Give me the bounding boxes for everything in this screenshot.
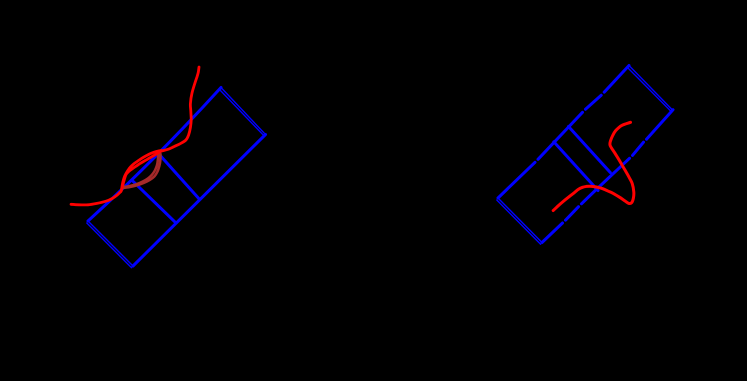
right rectangle short edge T2-R2 (doubled) [628,66,672,112]
right division line B [569,127,611,173]
left rectangle long edge B-R [133,135,266,267]
right rectangle long edge B2-R2 (with gaps) [542,110,673,243]
brown lens arc outer stroke [122,154,160,188]
left division line 1 [158,153,200,199]
right division line A [554,142,598,191]
brown lens arc inner stroke [122,153,158,188]
right rectangle long edge L2-T2 (with gaps) [498,66,629,199]
left red curve [71,67,199,205]
left division line 2 [132,180,175,222]
left rectangle long edge L-T [88,88,221,222]
right red S-curve [553,122,634,210]
red lens upper arc stroke [122,150,162,189]
left rectangle short edge T-R (doubled) [220,88,266,137]
right rectangle short edge L2-B2 (doubled) [497,198,542,244]
left rectangle short edge L-B (doubled) [87,221,133,268]
